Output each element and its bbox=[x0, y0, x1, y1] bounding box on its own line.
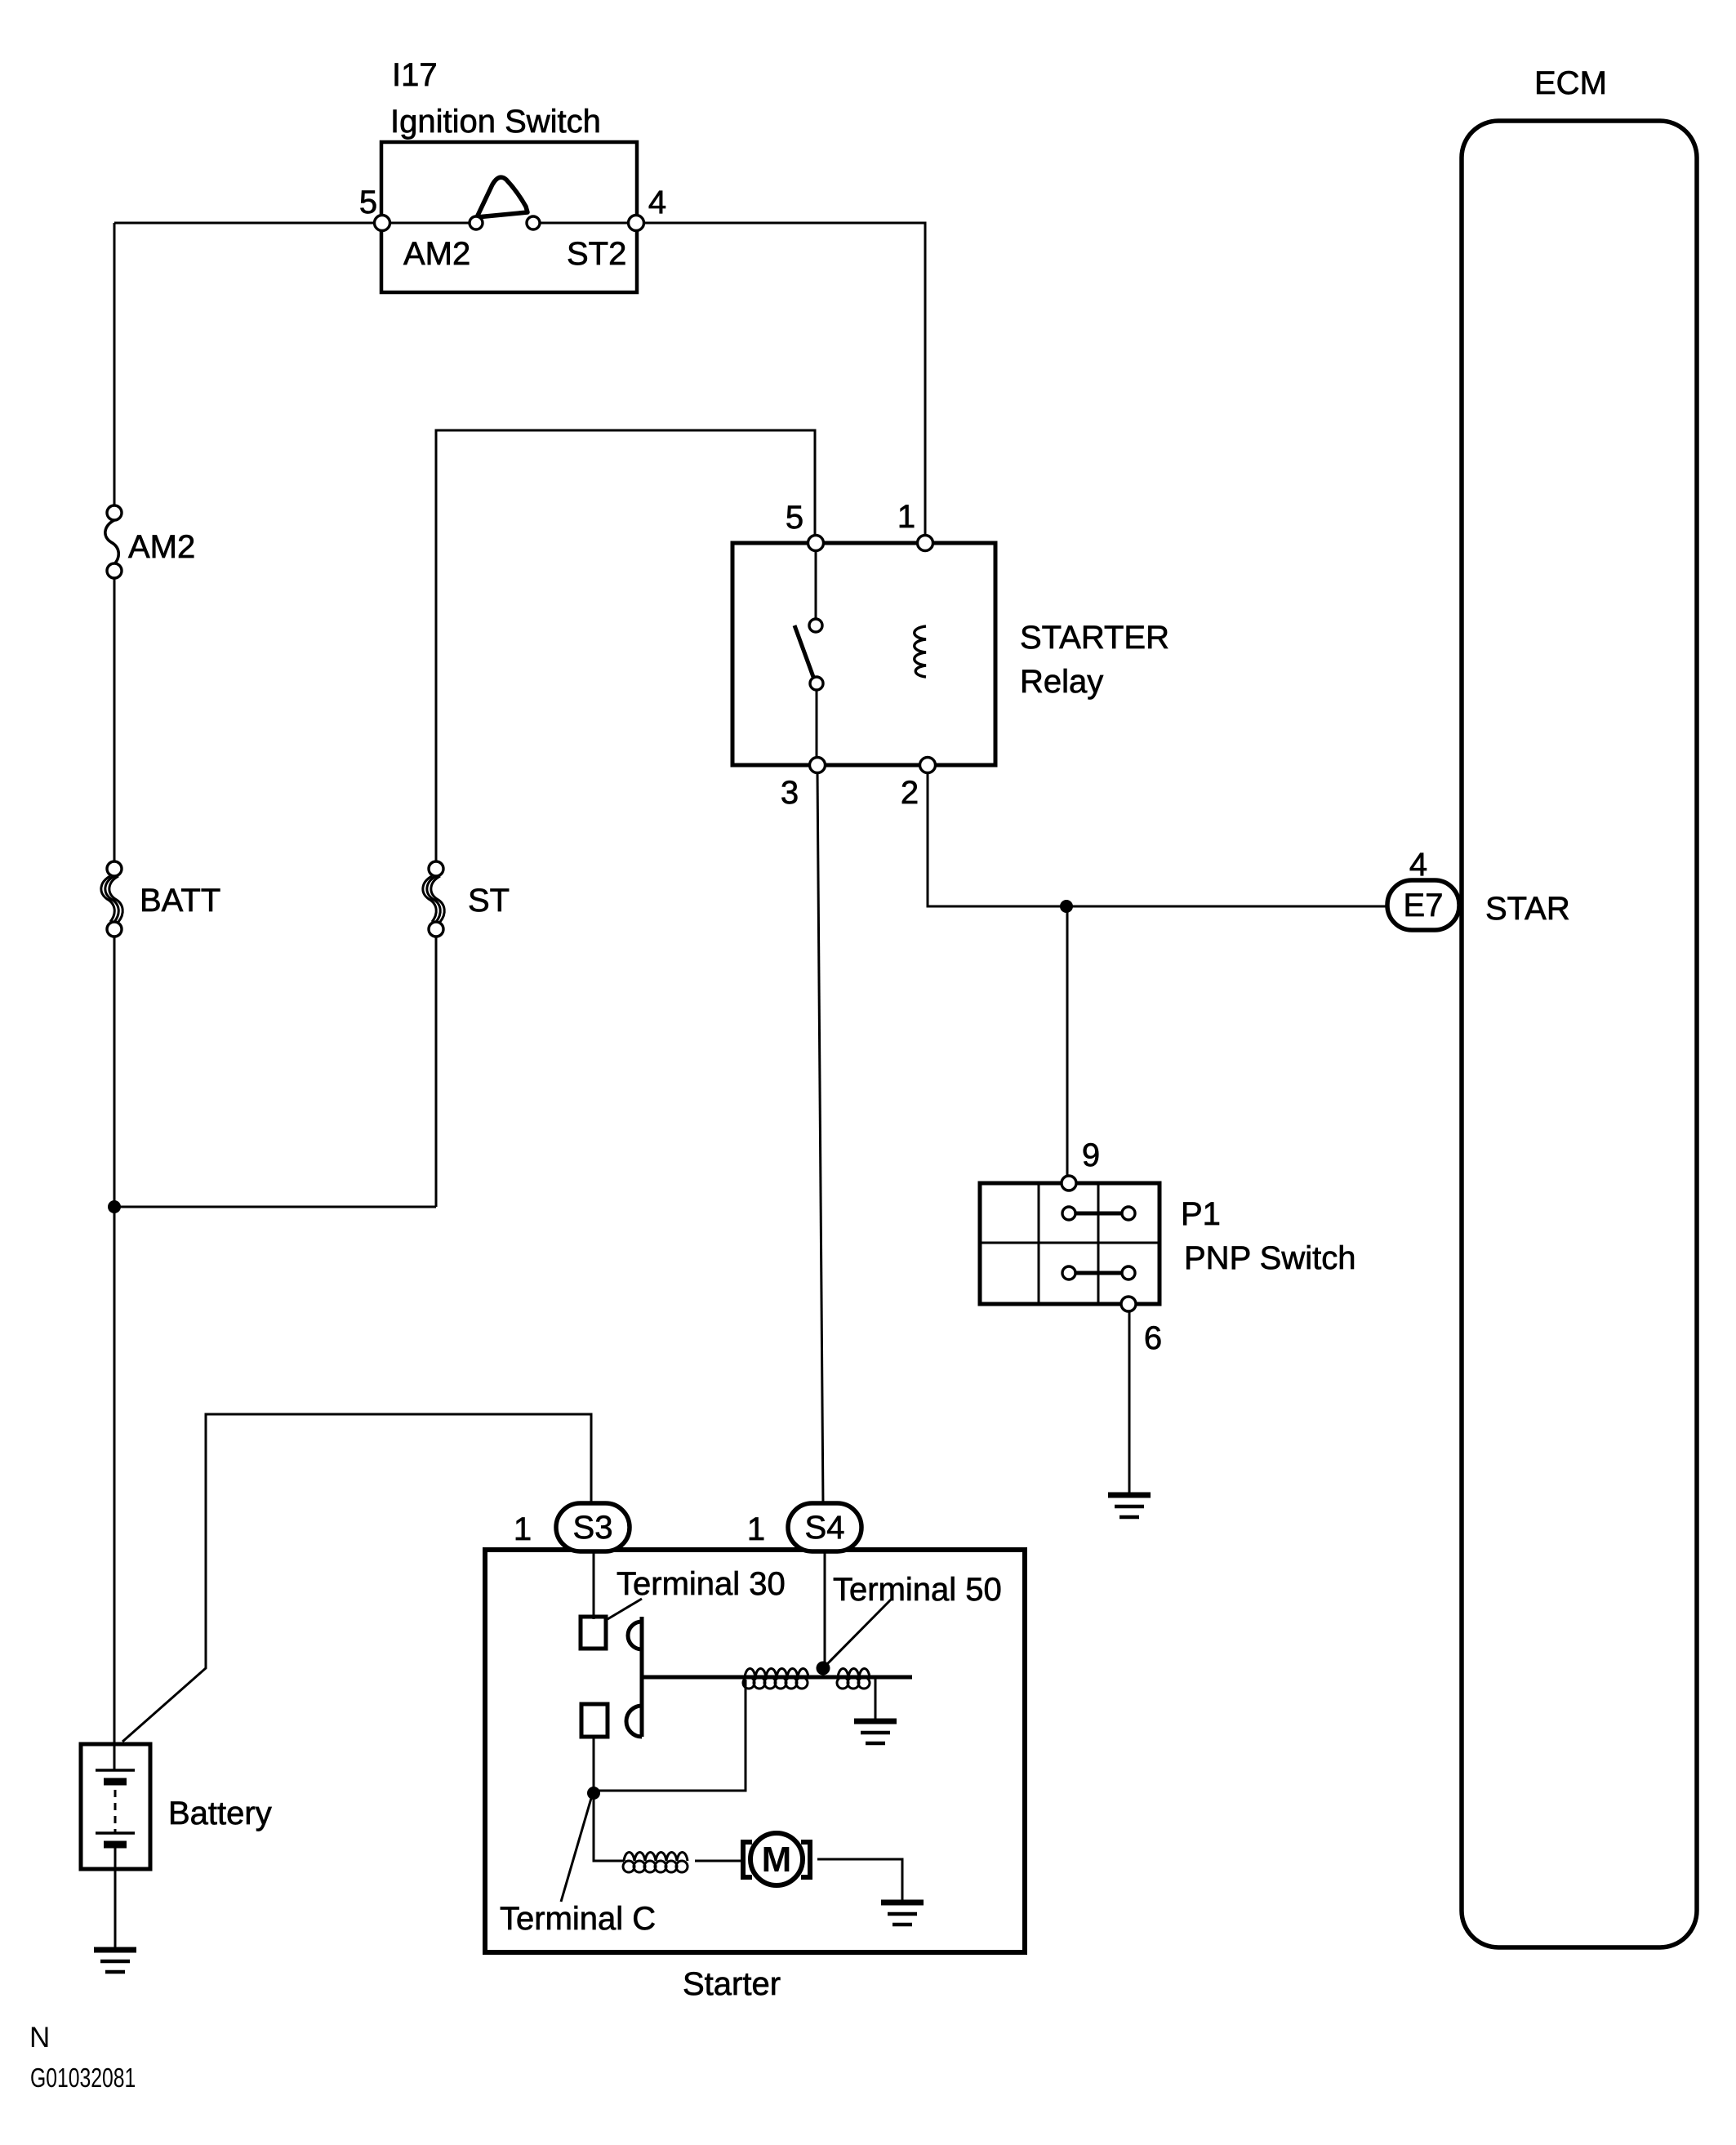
svg-text:5: 5 bbox=[786, 500, 803, 536]
svg-text:5: 5 bbox=[359, 185, 377, 220]
svg-text:AM2: AM2 bbox=[403, 236, 470, 272]
svg-text:ST: ST bbox=[468, 883, 510, 919]
svg-text:Ignition Switch: Ignition Switch bbox=[390, 104, 601, 140]
svg-text:STAR: STAR bbox=[1485, 891, 1570, 927]
svg-text:Terminal 30: Terminal 30 bbox=[617, 1566, 786, 1602]
svg-text:N: N bbox=[29, 2022, 50, 2054]
svg-text:S4: S4 bbox=[805, 1510, 845, 1546]
svg-text:Terminal C: Terminal C bbox=[500, 1901, 656, 1937]
svg-text:9: 9 bbox=[1082, 1137, 1100, 1173]
svg-text:4: 4 bbox=[1409, 847, 1427, 883]
svg-text:G01032081: G01032081 bbox=[30, 2064, 136, 2094]
svg-text:STARTER: STARTER bbox=[1020, 620, 1169, 656]
svg-text:2: 2 bbox=[901, 775, 919, 811]
svg-text:Starter: Starter bbox=[683, 1966, 781, 2002]
svg-text:6: 6 bbox=[1144, 1320, 1162, 1356]
svg-text:1: 1 bbox=[514, 1511, 532, 1547]
svg-text:Terminal 50: Terminal 50 bbox=[833, 1572, 1002, 1608]
svg-text:ST2: ST2 bbox=[567, 236, 626, 272]
svg-text:PNP Switch: PNP Switch bbox=[1184, 1240, 1355, 1276]
svg-text:P1: P1 bbox=[1181, 1196, 1221, 1232]
svg-text:3: 3 bbox=[781, 775, 799, 811]
svg-text:AM2: AM2 bbox=[128, 529, 195, 565]
svg-text:BATT: BATT bbox=[140, 883, 220, 919]
svg-text:4: 4 bbox=[648, 185, 666, 220]
svg-text:M: M bbox=[762, 1840, 792, 1880]
svg-text:1: 1 bbox=[747, 1511, 765, 1547]
svg-text:Relay: Relay bbox=[1020, 664, 1103, 700]
svg-text:ECM: ECM bbox=[1534, 65, 1607, 101]
svg-text:1: 1 bbox=[897, 499, 915, 535]
svg-text:I17: I17 bbox=[392, 57, 438, 93]
svg-text:Battery: Battery bbox=[168, 1796, 272, 1831]
svg-text:E7: E7 bbox=[1404, 888, 1444, 923]
svg-text:S3: S3 bbox=[573, 1510, 613, 1546]
